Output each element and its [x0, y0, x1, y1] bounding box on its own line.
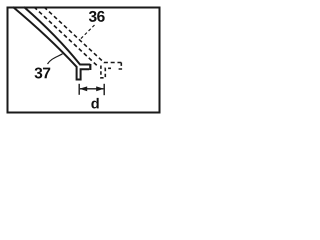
profile 37 end lip: [89, 64, 91, 70]
leader line for 36 (dashed): [80, 25, 95, 40]
label 36: [89, 11, 97, 22]
profile 36 dashed leg: [101, 66, 111, 78]
dimension line with arrows: [80, 88, 103, 90]
arrowhead left: [79, 86, 87, 91]
profile 36 dashed lower line: [34, 7, 97, 66]
border frame: [8, 8, 160, 113]
arrowhead right: [96, 86, 104, 91]
label 37: [35, 67, 43, 78]
profile 36 dashed upper line: [44, 7, 121, 63]
label d: [91, 98, 98, 109]
leader line for 37 (curved): [48, 54, 63, 64]
profile 36 dashed lip: [117, 63, 122, 70]
dimension extension line right: [103, 84, 105, 95]
dimension extension line left: [78, 84, 80, 95]
profile 37 lower surface and leg: [13, 7, 89, 80]
profile 37 upper surface line: [24, 7, 90, 65]
